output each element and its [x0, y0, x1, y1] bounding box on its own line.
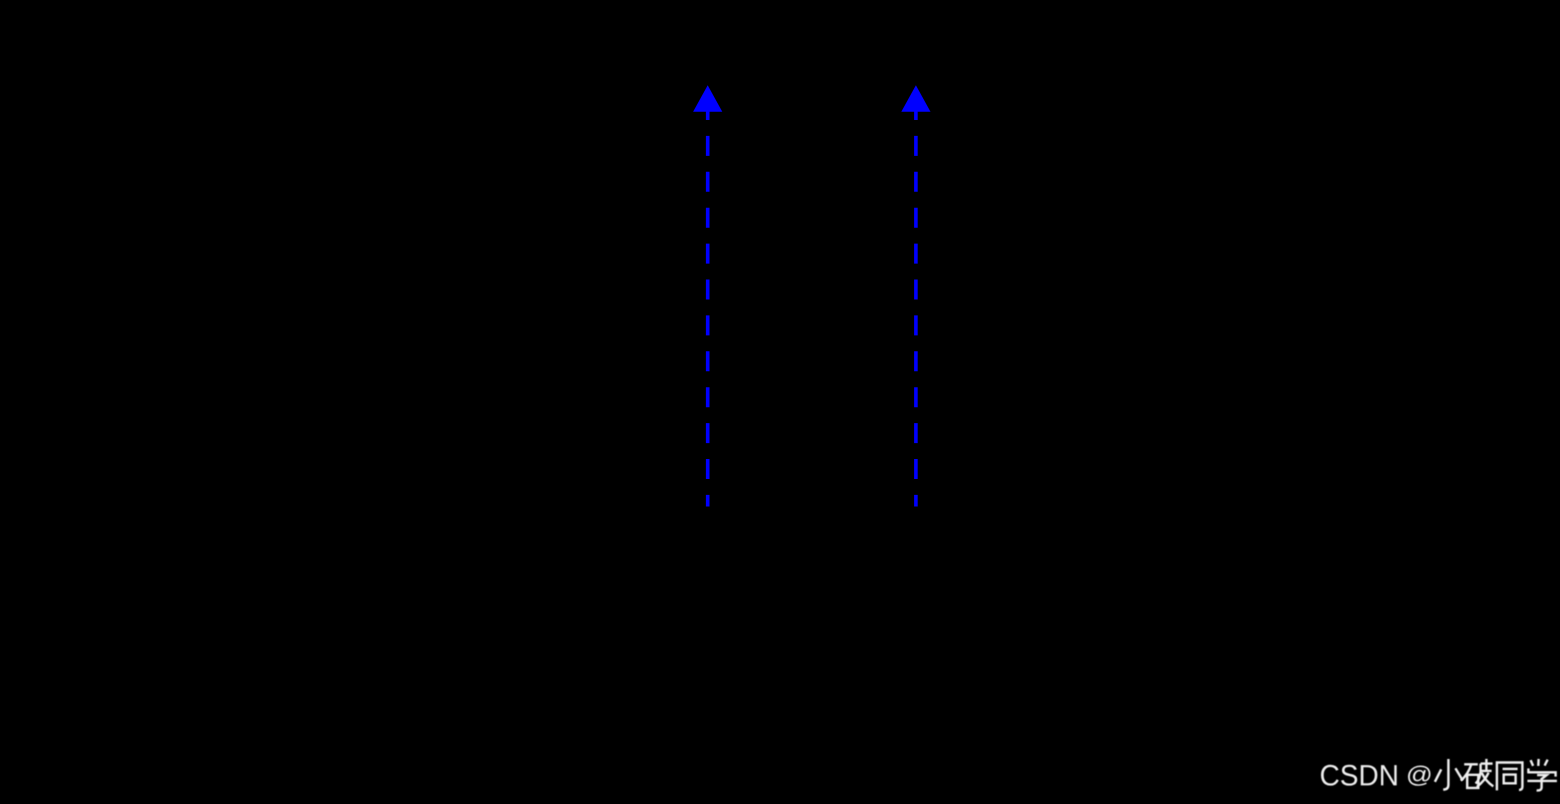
- watermark glyph po: [1461, 759, 1493, 788]
- wire: left blue dashed shaft: [706, 100, 710, 507]
- watermark glyph tong: [1497, 763, 1523, 791]
- wire: right blue dashed shaft: [914, 100, 918, 507]
- watermark glyph xiao: [1435, 759, 1463, 790]
- watermark at-sign: [1408, 766, 1431, 786]
- node B: right arrowhead: [901, 85, 930, 112]
- node A: left arrowhead: [693, 85, 722, 112]
- watermark glyph xue: [1527, 759, 1557, 791]
- watermark latin text CSDN: [1321, 765, 1397, 786]
